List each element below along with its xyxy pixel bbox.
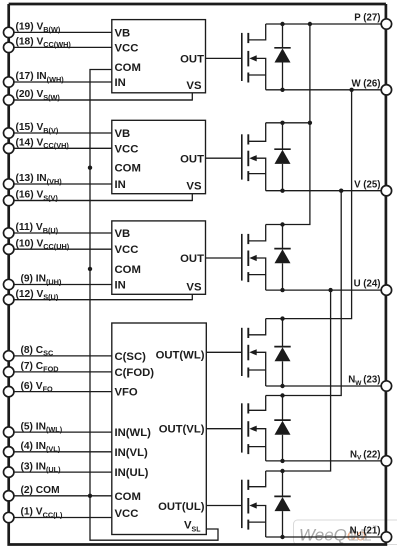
terminal pin P (27) [354,13,391,30]
power MOSFET Q3 (UH) [242,225,266,291]
junction V drain rail / P bus [308,121,312,125]
terminal pin (8) CSC with lead wire [4,345,112,361]
wire V phase to low-side VL drain [266,191,342,396]
wire U phase to low-side UL drain [266,290,331,471]
terminal pin (20) VS(W) with lead wire [4,89,193,105]
terminal pin N_W (23) [348,375,391,392]
junction COM bus / driver-2 COM [88,166,92,170]
svg-text:C(FOD): C(FOD) [115,367,155,379]
freewheel diode D3 [274,225,290,291]
wire V-phase high-side drain rail [266,122,310,124]
terminal pin (9) IN(UH) with lead wire [4,274,112,290]
terminal pin N_U (21) [350,526,392,543]
junction U drain rail / D3 cathode [280,222,284,226]
svg-text:OUT: OUT [180,253,204,265]
freewheel diode D2 [274,123,290,191]
power MOSFET Q5 (VL) [242,396,266,461]
svg-text:NV (22): NV (22) [350,450,381,462]
junction V drain rail / D2 cathode [280,121,284,125]
terminal pin (1) VCC(L) with lead wire [4,507,112,523]
junction UL drain rail / D6 cathode [280,469,284,473]
svg-text:COM: COM [115,264,141,276]
terminal pin (2) COM with lead wire [4,485,112,501]
svg-text:OUT(WL): OUT(WL) [156,350,205,362]
power MOSFET Q1 (WH) [242,24,266,90]
junction N_W rail / D4 anode [280,384,284,388]
freewheel diode D5 [274,396,290,461]
svg-text:IN: IN [115,179,126,191]
terminal pin (19) VB(W) with lead wire [4,22,112,38]
svg-text:COM: COM [115,491,141,503]
WeeQoo watermark (decorative) [294,520,397,545]
wire OUT(WL) to Q4 gate [206,351,242,353]
terminal pin (15) VB(V) with lead wire [4,122,112,138]
low-side driver LVIC block U4 [112,323,207,535]
svg-text:OUT: OUT [180,153,204,165]
svg-text:VB: VB [115,228,131,240]
gate-driver HVIC block U2 (V-phase) [112,120,206,193]
terminal pin (3) IN(UL) with lead wire [4,461,112,477]
junction N_U rail / D6 anode [280,535,284,539]
svg-text:VS: VS [186,80,202,92]
svg-text:IN(UL): IN(UL) [115,467,149,479]
terminal pin (7) CFOD with lead wire [4,361,112,377]
junction COM bus / COM terminal [88,494,92,498]
svg-text:OUT: OUT [180,54,204,66]
terminal pin V (25) [354,179,391,196]
terminal pin (6) VFO with lead wire [4,381,112,397]
junction V rail / D2 anode [280,189,284,193]
svg-text:VS: VS [186,281,202,293]
svg-text:IN(VL): IN(VL) [115,447,148,459]
wire W output rail [266,89,387,91]
junction U rail / U down-line [328,288,332,292]
power MOSFET Q6 (UL) [242,471,266,537]
junction P rail / P bus [308,22,312,26]
svg-text:VCC: VCC [115,143,139,155]
terminal pin (10) VCC(UH) with lead wire [4,238,112,254]
svg-text:OUT(UL): OUT(UL) [158,501,205,513]
junction COM bus / driver-3 COM [88,267,92,271]
svg-text:OUT(VL): OUT(VL) [159,424,205,436]
wire VS stub driver-2 [14,194,192,201]
svg-text:IN: IN [115,280,126,292]
terminal pin (11) VB(U) with lead wire [4,222,112,238]
terminal pin (13) IN(VH) with lead wire [4,173,112,189]
terminal pin W (26) [351,78,391,95]
wire W phase to low-side WL drain [266,90,352,319]
terminal pin (16) VS(V) with lead wire [4,190,193,206]
svg-text:VCC: VCC [115,508,139,520]
svg-text:NU (21): NU (21) [350,526,381,538]
wire VS stub driver-1 [14,93,192,100]
power MOSFET Q4 (WL) [242,319,266,386]
svg-text:VCC: VCC [115,244,139,256]
junction P rail / D1 cathode [280,22,284,26]
svg-text:VS: VS [186,181,202,193]
wire V output rail [266,190,387,192]
svg-text:COM: COM [115,62,141,74]
terminal pin (17) IN(WH) with lead wire [4,71,112,87]
wire P bus vertical to lower high-side drains [266,24,310,225]
terminal pin N_V (22) [350,450,392,467]
wire OUT driver-1 to Q1 gate [206,57,242,59]
svg-text:IN(WL): IN(WL) [115,427,152,439]
gate-driver HVIC block U3 (U-phase) [112,221,206,294]
wire N_W rail [266,385,387,387]
wire COM bus and V_SL return net [90,70,218,541]
svg-text:VB: VB [115,27,131,39]
terminal pin (5) IN(WL) with lead wire [4,421,112,437]
svg-text:VB: VB [115,128,131,140]
wire U output rail [266,289,387,291]
junction WL drain rail / D4 cathode [280,316,284,320]
svg-text:W (26): W (26) [351,78,380,89]
terminal pin (4) IN(VL) with lead wire [4,441,112,457]
wire OUT(VL) to Q5 gate [206,428,242,430]
gate-driver HVIC block U1 (W-phase) [112,20,206,93]
terminal pin U (24) [354,279,392,296]
wire VS stub driver-3 [14,294,192,299]
svg-text:VCC: VCC [115,42,139,54]
freewheel diode D4 [274,319,290,386]
junction VL drain rail / D5 cathode [280,393,284,397]
junction N_V rail / D5 anode [280,459,284,463]
junction U rail / D3 anode [280,288,284,292]
junction W rail / W down-line [349,88,353,92]
wire N_U rail [266,536,387,538]
terminal pin (18) VCC(WH) with lead wire [4,37,112,53]
wire P bus rail [266,23,387,25]
svg-text:NW (23): NW (23) [348,375,380,387]
wire OUT(UL) to Q6 gate [206,505,242,507]
svg-text:U (24): U (24) [354,279,381,290]
svg-text:(2) COM: (2) COM [21,485,60,496]
svg-text:COM: COM [115,163,141,175]
terminal pin (12) VS(U) with lead wire [4,289,193,305]
terminal pin (14) VCC(VH) with lead wire [4,138,112,154]
junction W rail / D1 anode [280,88,284,92]
junction V rail / V down-line [339,189,343,193]
freewheel diode D1 [274,24,290,90]
wire OUT driver-3 to Q3 gate [206,257,242,259]
wire N_V rail [266,460,387,462]
svg-text:IN: IN [115,77,126,89]
wire OUT driver-2 to Q2 gate [206,157,242,159]
svg-text:P (27): P (27) [354,13,380,24]
power MOSFET Q2 (VH) [242,123,266,191]
svg-text:V (25): V (25) [354,179,380,190]
svg-text:VFO: VFO [115,387,138,399]
freewheel diode D6 [274,471,290,537]
svg-text:C(SC): C(SC) [115,351,147,363]
